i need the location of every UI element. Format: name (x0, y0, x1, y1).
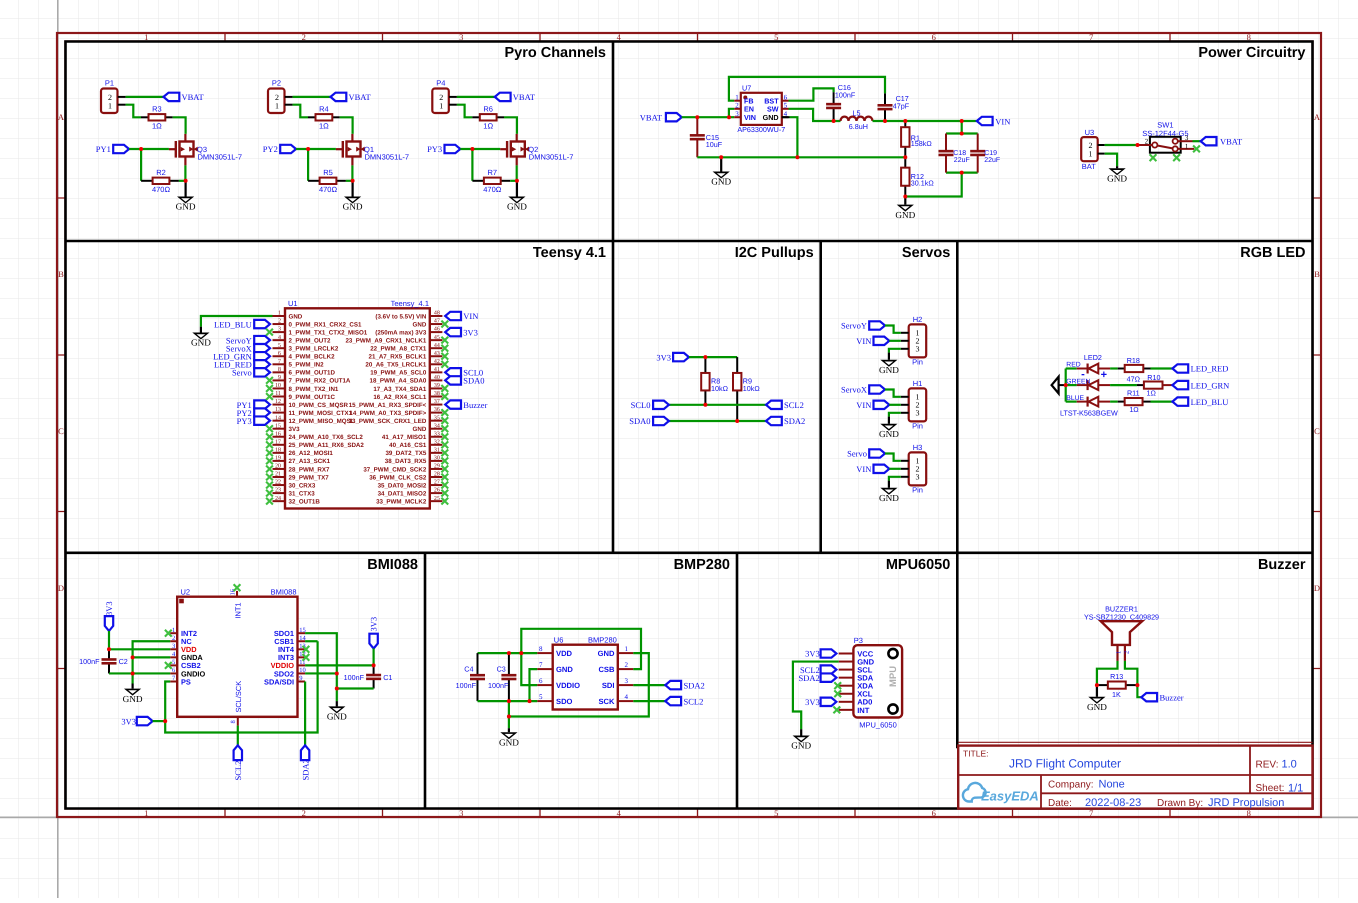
svg-text:VIN: VIN (856, 400, 871, 410)
svg-text:RGB LED: RGB LED (1240, 245, 1305, 261)
svg-text:36_PWM_CLK_CS2: 36_PWM_CLK_CS2 (369, 474, 427, 481)
svg-text:GND: GND (711, 177, 731, 187)
svg-text:Buzzer: Buzzer (1258, 557, 1306, 573)
wire VDDIO/CSB rail (521, 629, 641, 685)
svg-text:3: 3 (625, 677, 629, 685)
wire (460, 148, 500, 150)
svg-text:Servos: Servos (902, 245, 950, 261)
net flag VBAT (331, 93, 347, 101)
svg-text:470Ω: 470Ω (483, 185, 502, 194)
net flag SCL2 vertical (234, 745, 242, 760)
no-connect X (441, 385, 448, 392)
net flag SDA2 vertical (301, 745, 309, 760)
svg-text:1: 1 (275, 102, 279, 111)
svg-text:2: 2 (172, 635, 175, 642)
no-connect X (441, 482, 448, 489)
wire (1137, 685, 1141, 697)
svg-text:1: 1 (1115, 651, 1122, 654)
svg-text:34: 34 (434, 423, 440, 429)
wire (293, 96, 331, 98)
wire VDD (109, 648, 170, 650)
wire (457, 96, 495, 98)
svg-text:P3: P3 (854, 636, 863, 645)
net flag 3V3 (137, 717, 153, 725)
wire SDO (478, 700, 538, 702)
wire (1151, 367, 1173, 369)
svg-text:BMI088: BMI088 (367, 557, 418, 573)
svg-text:(250mA max) 3V3: (250mA max) 3V3 (375, 329, 427, 336)
svg-text:SDA0: SDA0 (463, 376, 484, 386)
net flag ServoY (254, 336, 270, 344)
net flag PY2 (280, 145, 296, 153)
svg-text:D: D (1314, 583, 1320, 593)
net flag SDA2 (821, 673, 837, 681)
net flag SCL2 (766, 401, 782, 409)
svg-text:D: D (58, 583, 64, 593)
svg-text:10: 10 (299, 667, 306, 674)
junction (832, 119, 836, 123)
svg-text:SCL/SCK: SCL/SCK (234, 681, 243, 713)
net flag Buzzer (1141, 693, 1157, 701)
capacitor C17 47pF (878, 93, 893, 121)
net flag SCL0 (445, 368, 461, 376)
svg-text:1: 1 (439, 102, 443, 111)
svg-text:24_PWM_A10_TX6_SCL2: 24_PWM_A10_TX6_SCL2 (289, 434, 364, 441)
junction (131, 671, 135, 675)
no-connect X (266, 425, 273, 432)
svg-text:Pin: Pin (912, 358, 923, 367)
svg-text:SDA2: SDA2 (684, 680, 705, 690)
ground (879, 481, 899, 503)
net flag 3V3 vertical right (369, 634, 377, 649)
ground (1087, 685, 1107, 712)
junction (507, 699, 511, 703)
svg-text:LED_BLU: LED_BLU (1191, 397, 1229, 407)
net flag LED_BLU (1172, 397, 1188, 405)
resistor R6 body (480, 114, 497, 120)
svg-text:Pin: Pin (912, 486, 923, 495)
svg-text:U3: U3 (1085, 128, 1095, 137)
svg-text:6_PWM_OUT1D: 6_PWM_OUT1D (289, 370, 336, 377)
svg-text:VBAT: VBAT (182, 92, 205, 102)
svg-text:GND: GND (791, 741, 811, 751)
wire (510, 180, 517, 182)
wire cap bottom bar (946, 172, 978, 174)
svg-text:10kΩ: 10kΩ (743, 384, 761, 393)
svg-text:3_PWM_LRCLK2: 3_PWM_LRCLK2 (289, 346, 339, 353)
IC U6 BMP280 (537, 636, 633, 710)
svg-text:4_PWM_BCLK2: 4_PWM_BCLK2 (289, 354, 336, 361)
net flag ServoX (254, 344, 270, 352)
capacitor C1 100nF (366, 665, 381, 688)
wire (889, 349, 901, 353)
svg-text:R6: R6 (483, 104, 493, 113)
ground (176, 181, 196, 212)
svg-text:9_PWM_OUT1C: 9_PWM_OUT1C (289, 394, 336, 401)
no-connect X (441, 321, 448, 328)
svg-text:3V3: 3V3 (463, 327, 478, 337)
no-connect X (266, 466, 273, 473)
svg-text:44: 44 (434, 343, 440, 349)
svg-text:LTST-K563BGEW: LTST-K563BGEW (1060, 408, 1118, 417)
svg-text:22: 22 (275, 480, 281, 486)
svg-text:12: 12 (275, 399, 281, 405)
svg-text:1: 1 (278, 311, 281, 317)
svg-text:1: 1 (735, 94, 739, 102)
svg-text:100nF: 100nF (456, 681, 477, 690)
junction (719, 155, 723, 159)
svg-text:SDI: SDI (602, 681, 615, 690)
svg-text:GND: GND (598, 649, 615, 658)
svg-text:43: 43 (434, 351, 440, 357)
svg-text:PY1: PY1 (96, 144, 111, 154)
wire SCL2 (237, 726, 239, 746)
wire (140, 149, 142, 181)
svg-text:P1: P1 (105, 79, 114, 88)
svg-text:27_A13_SCK1: 27_A13_SCK1 (289, 458, 331, 465)
junction (1095, 683, 1099, 687)
wire (1110, 367, 1118, 369)
svg-text:B: B (1314, 269, 1320, 279)
svg-text:2_PWM_OUT2: 2_PWM_OUT2 (289, 337, 332, 344)
svg-text:6: 6 (278, 351, 281, 357)
wire (885, 326, 901, 333)
svg-text:GND: GND (895, 210, 915, 220)
junction (795, 155, 799, 159)
no-connect X (833, 706, 840, 713)
svg-text:Company:: Company: (1048, 779, 1094, 790)
svg-text:Buzzer: Buzzer (463, 400, 487, 410)
no-connect X (266, 385, 273, 392)
net flag VBAT (495, 93, 511, 101)
svg-text:100nF: 100nF (344, 673, 365, 682)
svg-text:5: 5 (278, 343, 281, 349)
net flag VBAT input (666, 113, 682, 121)
svg-text:29_PWM_TX7: 29_PWM_TX7 (289, 474, 330, 481)
svg-text:PY3: PY3 (427, 144, 442, 154)
svg-text:100nF: 100nF (835, 91, 856, 100)
svg-text:22_PWM_A8_CTX1: 22_PWM_A8_CTX1 (370, 346, 427, 353)
svg-text:LED_RED: LED_RED (1191, 364, 1229, 374)
svg-text:47pF: 47pF (893, 101, 910, 110)
svg-text:28_PWM_RX7: 28_PWM_RX7 (289, 466, 330, 473)
svg-text:3V3: 3V3 (805, 649, 820, 659)
no-connect X (441, 498, 448, 505)
svg-text:GND: GND (413, 426, 427, 433)
no-connect X (266, 441, 273, 448)
svg-text:470Ω: 470Ω (319, 185, 338, 194)
svg-text:100nF: 100nF (488, 681, 509, 690)
resistor R18 47Ω (1118, 356, 1151, 383)
svg-text:41_A17_MISO1: 41_A17_MISO1 (382, 434, 427, 441)
svg-text:U6: U6 (554, 636, 564, 645)
net flag 3V3 (821, 649, 837, 657)
svg-text:47: 47 (434, 319, 440, 325)
junction (139, 147, 143, 151)
junction (960, 171, 964, 175)
wire U7 GND (790, 117, 798, 157)
svg-text:MPU: MPU (888, 666, 899, 687)
svg-text:28: 28 (434, 472, 440, 478)
svg-text:3V3: 3V3 (656, 352, 671, 362)
svg-text:1Ω: 1Ω (152, 121, 162, 130)
no-connect X (441, 353, 448, 360)
wire (293, 105, 308, 118)
wire (1105, 154, 1117, 167)
svg-text:U1: U1 (288, 299, 298, 308)
svg-text:23: 23 (275, 488, 281, 494)
svg-text:P4: P4 (436, 79, 445, 88)
connector U3 BAT (1081, 128, 1105, 171)
svg-text:INT1: INT1 (233, 602, 242, 618)
transistor Q3 DMN3051L-7 (169, 134, 242, 166)
svg-text:45: 45 (434, 335, 440, 341)
svg-text:31: 31 (434, 447, 440, 453)
svg-text:15_PWM_A1_RX3_SPDIF<: 15_PWM_A1_RX3_SPDIF< (349, 402, 427, 409)
LED diode RED (1066, 362, 1110, 374)
svg-text:GND: GND (879, 493, 899, 503)
svg-text:37_PWM_CMD_SCK2: 37_PWM_CMD_SCK2 (363, 466, 426, 473)
svg-text:Servo: Servo (847, 449, 867, 459)
LED common anode arrow (1052, 377, 1059, 394)
wire (1110, 384, 1137, 386)
no-connect X (441, 337, 448, 344)
junction (903, 195, 907, 199)
wire (1110, 401, 1118, 403)
net flag ServoX (869, 385, 885, 393)
wire (1066, 384, 1077, 386)
svg-text:1K: 1K (1112, 690, 1121, 699)
svg-text:3: 3 (916, 473, 920, 482)
svg-text:+: + (1101, 369, 1107, 381)
svg-text:16_A2_RX4_SCL1: 16_A2_RX4_SCL1 (373, 394, 427, 401)
svg-text:-: - (1081, 369, 1085, 381)
svg-text:PY2: PY2 (263, 144, 278, 154)
wire (471, 149, 473, 181)
svg-text:AP63300WU-7: AP63300WU-7 (737, 125, 785, 134)
ground (711, 157, 731, 186)
wire EN to VIN (729, 109, 734, 117)
net flag SCL2 (665, 697, 681, 705)
resistor R2 470Ω (141, 168, 179, 194)
svg-text:19: 19 (275, 456, 281, 462)
svg-text:ServoX: ServoX (841, 385, 867, 395)
svg-text:0_PWM_RX1_CRX2_CS1: 0_PWM_RX1_CRX2_CS1 (289, 321, 362, 328)
net flag PY1 (113, 145, 129, 153)
resistor R1 158kΩ (901, 121, 932, 157)
junction (528, 699, 532, 703)
svg-text:EasyEDA: EasyEDA (981, 789, 1039, 804)
junction (1135, 683, 1139, 687)
svg-text:LED_GRN: LED_GRN (1191, 380, 1230, 390)
no-connect X (441, 425, 448, 432)
resistor R5 body (320, 178, 337, 184)
svg-text:SDO: SDO (556, 697, 573, 706)
no-connect X (441, 441, 448, 448)
svg-text:VBAT: VBAT (640, 112, 663, 122)
svg-text:13_PWM_SCK_CRX1_LED: 13_PWM_SCK_CRX1_LED (349, 418, 427, 425)
net flag LED_GRN (1172, 381, 1188, 389)
svg-text:VIN: VIN (995, 116, 1010, 126)
wire BST to C16 (789, 88, 834, 100)
no-connect X (234, 584, 241, 591)
svg-text:GND: GND (1107, 174, 1127, 184)
svg-text:VBAT: VBAT (1220, 137, 1243, 147)
no-connect X (441, 409, 448, 416)
svg-text:DMN3051L-7: DMN3051L-7 (529, 152, 574, 161)
ground (1107, 166, 1127, 183)
svg-text:3V3: 3V3 (121, 716, 136, 726)
svg-text:30_CRX3: 30_CRX3 (289, 482, 316, 489)
wire SDO2 (305, 672, 337, 674)
svg-text:40_A16_CS1: 40_A16_CS1 (389, 442, 427, 449)
svg-text:C19: C19 (984, 150, 997, 157)
switch SW1 SS-12F44-G5 (1138, 120, 1195, 152)
svg-text:Teensy 4.1: Teensy 4.1 (533, 245, 606, 261)
svg-text:A: A (58, 112, 65, 122)
svg-text:34_DAT1_MISO2: 34_DAT1_MISO2 (378, 490, 427, 497)
resistor R7 body (484, 178, 501, 184)
junction (184, 179, 188, 183)
net flag SDA2 (766, 417, 782, 425)
svg-text:GND: GND (413, 321, 427, 328)
wire (296, 148, 336, 150)
svg-text:DMN3051L-7: DMN3051L-7 (365, 152, 410, 161)
svg-text:13: 13 (275, 407, 281, 413)
junction (372, 663, 376, 667)
svg-text:SDA2: SDA2 (784, 416, 805, 426)
no-connect X (1173, 154, 1180, 161)
wire (129, 148, 169, 150)
svg-text:R7: R7 (488, 168, 498, 177)
resistor R9 10kΩ (733, 357, 760, 421)
resistor R5 470Ω (308, 168, 346, 194)
svg-text:C18: C18 (953, 150, 966, 157)
wire FB to C17 (729, 77, 885, 101)
svg-text:Buzzer: Buzzer (1160, 692, 1184, 702)
net flag SCL0 (653, 401, 669, 409)
svg-text:48: 48 (434, 311, 440, 317)
wire PS/CSB1 rail (165, 641, 317, 732)
svg-text:SCL2: SCL2 (784, 400, 804, 410)
IC U2 BMI088 (170, 587, 306, 725)
wire (889, 404, 901, 406)
svg-text:3: 3 (1185, 134, 1189, 142)
no-connect X (441, 393, 448, 400)
resistor R3 body (149, 114, 166, 120)
wire (126, 96, 164, 98)
svg-text:MPU6050: MPU6050 (886, 557, 950, 573)
svg-text:C4: C4 (464, 665, 473, 674)
svg-text:C2: C2 (119, 657, 128, 666)
no-connect X (1150, 154, 1157, 161)
wire to ground (508, 701, 510, 728)
junction (883, 119, 887, 123)
wire SCL (669, 404, 766, 406)
net flag PY2 (254, 408, 270, 416)
svg-text:1: 1 (172, 627, 175, 634)
svg-text:1_PWM_TX1_CTX2_MISO1: 1_PWM_TX1_CTX2_MISO1 (289, 329, 368, 336)
no-connect X (266, 393, 273, 400)
svg-text:ServoY: ServoY (841, 321, 867, 331)
svg-text:R10: R10 (1147, 373, 1160, 382)
svg-text:R2: R2 (156, 168, 166, 177)
svg-text:LED_BLU: LED_BLU (214, 319, 252, 329)
svg-text:16: 16 (275, 431, 281, 437)
svg-text:3V3: 3V3 (369, 617, 379, 632)
net flag Servo (254, 368, 270, 376)
svg-text:11_PWM_MOSI_CTX1: 11_PWM_MOSI_CTX1 (289, 410, 353, 417)
wire CSB1 (305, 640, 318, 642)
svg-text:B: B (58, 269, 64, 279)
svg-text:R4: R4 (319, 104, 329, 113)
svg-text:C3: C3 (497, 665, 506, 674)
net flag LED_BLU (254, 320, 270, 328)
svg-text:GND: GND (289, 313, 303, 320)
resistor R8 body (701, 373, 709, 391)
wire (504, 117, 517, 134)
resistor R10 body (1144, 382, 1163, 389)
svg-text:CSB: CSB (598, 665, 615, 674)
svg-text:I2C Pullups: I2C Pullups (735, 245, 814, 261)
svg-text:GND: GND (879, 429, 899, 439)
svg-text:5_PWM_IN2: 5_PWM_IN2 (289, 362, 325, 369)
ground (507, 181, 527, 212)
no-connect X (165, 630, 172, 637)
svg-text:7: 7 (539, 661, 543, 669)
svg-text:SCL0: SCL0 (631, 400, 651, 410)
net flag PY1 (254, 400, 270, 408)
svg-text:SDA2: SDA2 (300, 759, 310, 780)
svg-text:GND: GND (763, 113, 779, 122)
svg-text:3V3: 3V3 (104, 601, 114, 616)
wire VIN rail (873, 120, 977, 122)
no-connect X (441, 417, 448, 424)
svg-text:9: 9 (299, 675, 302, 682)
svg-text:38: 38 (434, 391, 440, 397)
junction (903, 155, 907, 159)
no-connect X (303, 646, 310, 653)
svg-text:14: 14 (275, 415, 281, 421)
wire (340, 117, 353, 134)
no-connect X (266, 498, 273, 505)
wire (351, 165, 353, 180)
svg-text:BLUE: BLUE (1066, 395, 1084, 402)
junction (131, 655, 135, 659)
no-connect X (266, 458, 273, 465)
svg-text:TITLE:: TITLE: (963, 749, 989, 759)
svg-text:23_PWM_A9_CRX1_NCLK1: 23_PWM_A9_CRX1_NCLK1 (345, 337, 426, 344)
svg-text:18: 18 (275, 447, 281, 453)
svg-text:U7: U7 (742, 83, 751, 92)
wire VDDIO (305, 664, 374, 666)
IC U7 AP63300WU-7 (734, 83, 788, 134)
ground (791, 729, 811, 751)
svg-text:1: 1 (108, 102, 112, 111)
svg-text:Power Circuitry: Power Circuitry (1198, 45, 1305, 61)
svg-text:27: 27 (434, 480, 440, 486)
svg-text:1Ω: 1Ω (483, 121, 493, 130)
svg-text:11: 11 (275, 391, 281, 397)
buzzer BUZZER1 YS-SBZ1230 (1084, 604, 1159, 661)
wire (201, 316, 273, 327)
svg-text:41: 41 (434, 367, 440, 373)
ground (895, 197, 915, 220)
svg-text:26: 26 (434, 488, 440, 494)
resistor R7 470Ω (472, 168, 510, 194)
svg-text:7_PWM_RX2_OUT1A: 7_PWM_RX2_OUT1A (289, 378, 351, 385)
svg-text:36: 36 (434, 407, 440, 413)
